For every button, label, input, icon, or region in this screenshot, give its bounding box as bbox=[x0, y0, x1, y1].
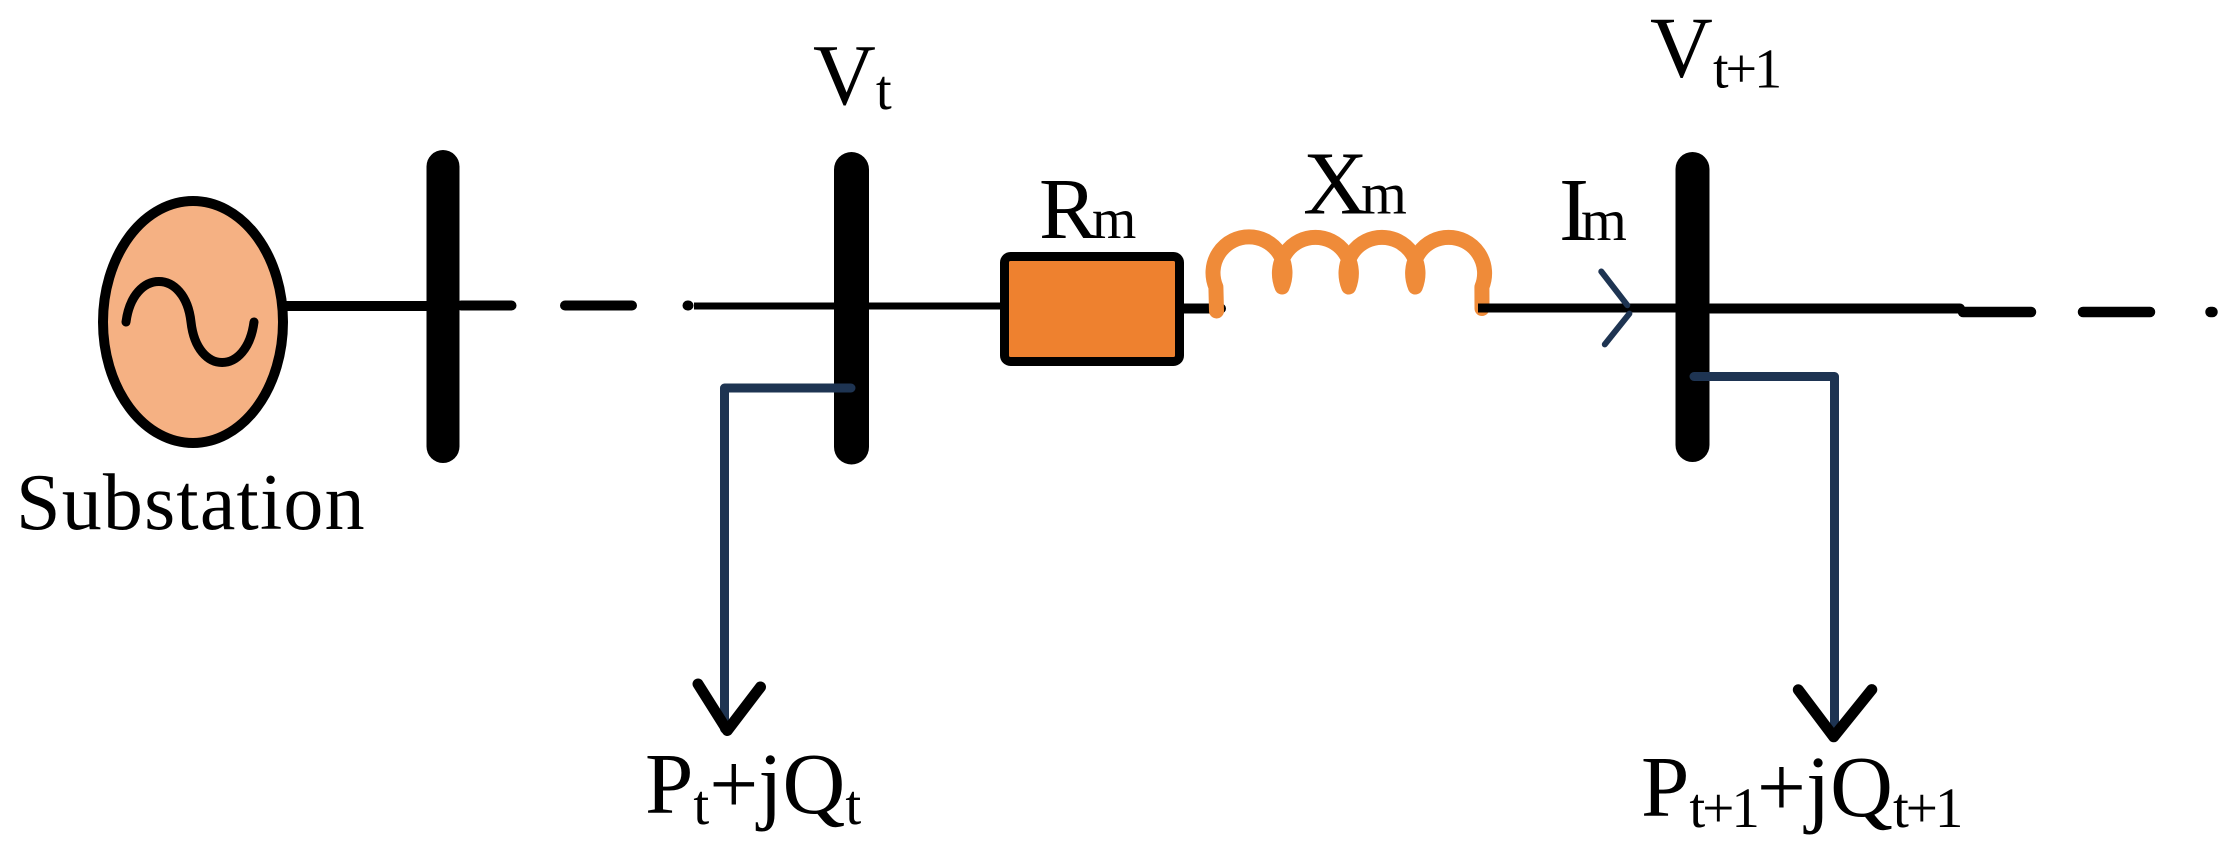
wire stub resistor to coil bbox=[1184, 304, 1221, 314]
bus bar 3 (node Vt+1) bbox=[1676, 152, 1710, 462]
dot segment bbox=[688, 301, 689, 311]
resistor Rm bbox=[1005, 257, 1180, 362]
bus bar 1 bbox=[427, 150, 460, 463]
wire right of bus 3 bbox=[1710, 304, 1960, 314]
svg-text:Im: Im bbox=[1559, 161, 1627, 260]
sine wave inside source bbox=[126, 282, 254, 363]
svg-text:Pt+jQt: Pt+jQt bbox=[645, 735, 861, 837]
current arrow Im (chevron) bbox=[1601, 272, 1629, 345]
svg-text:Vt: Vt bbox=[813, 26, 892, 123]
dash segment right 2 bbox=[2083, 307, 2150, 318]
load arrowhead at Vt bbox=[698, 684, 761, 731]
svg-text:Xm: Xm bbox=[1303, 135, 1407, 234]
wire source to bus 1 bbox=[280, 301, 432, 311]
svg-text:Rm: Rm bbox=[1039, 160, 1136, 257]
dot segment right bbox=[2211, 307, 2213, 318]
dash segment bbox=[565, 301, 632, 311]
svg-text:Vt+1: Vt+1 bbox=[1650, 0, 1779, 101]
wire stub right of bus 1 bbox=[461, 301, 512, 311]
load tap wire at Vt+1 bbox=[1694, 377, 1835, 734]
wire to resistor through bus 2 bbox=[694, 303, 1002, 310]
wire coil to bus 3 bbox=[1478, 304, 1676, 313]
svg-text:Pt+1+jQt+1: Pt+1+jQt+1 bbox=[1641, 738, 1961, 840]
bus bar 2 (node Vt) bbox=[834, 152, 869, 465]
AC source (substation generator) bbox=[103, 201, 283, 443]
dash segment right 1 bbox=[1963, 307, 2031, 318]
load tap wire at Vt bbox=[725, 388, 852, 729]
inductor coil Xm bbox=[1213, 237, 1485, 311]
load arrowhead at Vt+1 bbox=[1798, 690, 1872, 737]
svg-text:Substation: Substation bbox=[16, 459, 366, 547]
